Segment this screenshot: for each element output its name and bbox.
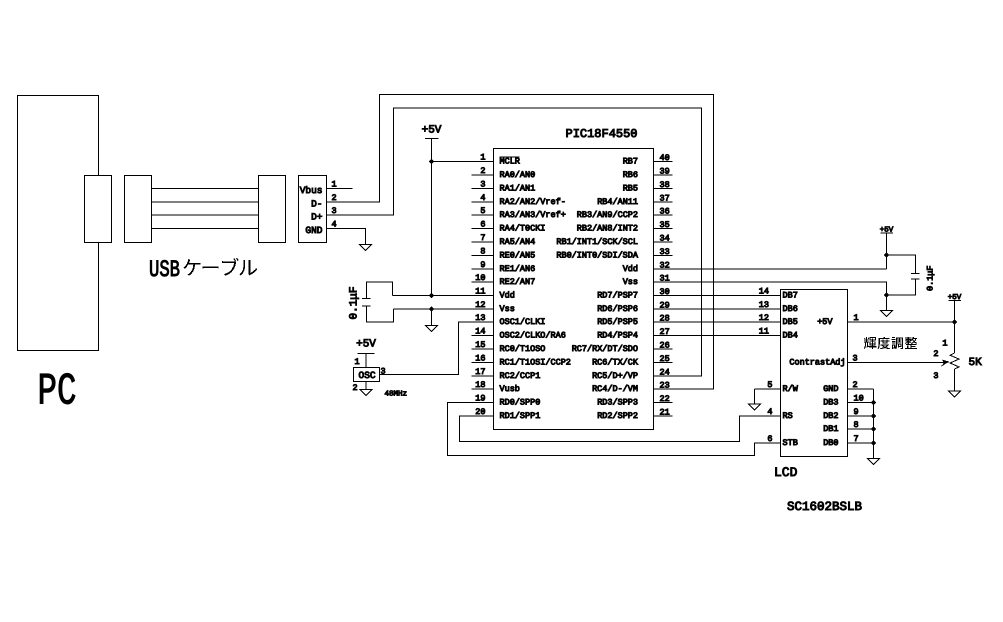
U1 pin 11 stub bbox=[472, 295, 494, 297]
svg-text:9: 9 bbox=[480, 260, 485, 270]
U1 pin 31 number bbox=[660, 274, 670, 284]
U1 pin 40 number bbox=[660, 153, 670, 163]
U1 pin 16 stub bbox=[472, 362, 494, 364]
U1 pin 3 number bbox=[480, 180, 485, 190]
U1 pin 22 stub bbox=[654, 402, 673, 404]
U1 pin 25 stub bbox=[654, 362, 673, 364]
svg-text:RB2/AN8/INT2: RB2/AN8/INT2 bbox=[577, 224, 638, 234]
capacitor C2 0.1uF bbox=[887, 255, 920, 295]
U1 pin 13 stub bbox=[472, 321, 494, 323]
U1 pin 23 stub bbox=[654, 388, 673, 390]
wire Vdd pin 32 bbox=[654, 268, 887, 270]
U1 pin 38 label RB5 bbox=[623, 184, 638, 194]
U1 pin 4 number bbox=[480, 193, 485, 203]
svg-text:RA5/AN4: RA5/AN4 bbox=[500, 237, 536, 247]
U1 pin 19 label RD0/SPP0 bbox=[500, 398, 541, 408]
svg-text:SC1602BSLB: SC1602BSLB bbox=[787, 500, 863, 514]
node DB0 junction bbox=[871, 440, 876, 445]
U1 pin 34 number bbox=[660, 234, 670, 244]
svg-text:DB1: DB1 bbox=[823, 424, 838, 434]
node pot top junction bbox=[952, 319, 957, 324]
svg-text:RA1/AN1: RA1/AN1 bbox=[500, 184, 536, 194]
wire RD4 to DB4 bbox=[654, 335, 781, 337]
OSC pin 2 label bbox=[353, 383, 358, 393]
ground at OSC bbox=[360, 390, 372, 396]
U1 pin 32 number bbox=[660, 261, 670, 271]
ground at J1 bbox=[360, 245, 372, 251]
svg-text:RD4/PSP4: RD4/PSP4 bbox=[597, 331, 638, 341]
svg-text:12: 12 bbox=[759, 313, 769, 323]
U1 pin 13 label OSC1/CLKI bbox=[500, 317, 546, 327]
U1 pin 14 label OSC2/CLKO/RA6 bbox=[500, 331, 566, 341]
U1 pin 35 label RB2/AN8/INT2 bbox=[577, 224, 638, 234]
svg-text:1: 1 bbox=[355, 357, 360, 367]
U1 pin 13 number bbox=[475, 313, 485, 323]
svg-text:+5V: +5V bbox=[422, 125, 442, 137]
svg-text:11: 11 bbox=[759, 327, 769, 337]
svg-text:15: 15 bbox=[475, 340, 485, 350]
U1 pin 37 stub bbox=[654, 201, 673, 203]
svg-text:RA2/AN2/Vref-: RA2/AN2/Vref- bbox=[500, 197, 566, 207]
wire Vss pin 31 bbox=[654, 282, 887, 295]
U1 pin 26 label RC7/RX/DT/SDO bbox=[572, 344, 638, 354]
svg-text:DB4: DB4 bbox=[783, 331, 798, 341]
LCD pin 7 number bbox=[854, 434, 859, 444]
svg-text:+5V: +5V bbox=[817, 317, 833, 327]
svg-text:D-: D- bbox=[311, 199, 322, 210]
wire ContrastAdj to pot wiper bbox=[848, 360, 950, 367]
power +5V V3 bbox=[880, 227, 894, 235]
U1 pin 18 stub bbox=[472, 388, 494, 390]
svg-text:+5V: +5V bbox=[356, 339, 376, 351]
svg-text:34: 34 bbox=[660, 234, 670, 244]
U1 pin 19 stub bbox=[472, 402, 494, 404]
svg-text:26: 26 bbox=[660, 341, 670, 351]
U1 pin 28 number bbox=[660, 314, 670, 324]
U1 pin 24 number bbox=[660, 368, 670, 378]
U1 pin 15 label RC0/T1OSO bbox=[500, 344, 546, 354]
U1 pin 5 stub bbox=[472, 214, 494, 216]
USB cable wire 2 bbox=[152, 201, 259, 203]
U1 pin 1 label MCLR bbox=[500, 157, 520, 167]
svg-text:40: 40 bbox=[660, 153, 670, 163]
svg-text:RD6/PSP6: RD6/PSP6 bbox=[597, 304, 638, 314]
svg-text:11: 11 bbox=[475, 287, 485, 297]
svg-text:RD1/SPP1: RD1/SPP1 bbox=[500, 411, 541, 421]
LCD pin 10 number bbox=[854, 394, 864, 404]
wire J1 GND bbox=[327, 229, 366, 245]
U1 pin 38 stub bbox=[654, 188, 673, 190]
U1 pin 2 label RA0/AN0 bbox=[500, 170, 536, 180]
svg-text:RC1/T1OSI/CCP2: RC1/T1OSI/CCP2 bbox=[500, 358, 571, 368]
U1 pin 36 stub bbox=[654, 214, 673, 216]
svg-text:10: 10 bbox=[475, 273, 485, 283]
USB cable wire 3 bbox=[152, 214, 259, 216]
U1 name label bbox=[566, 127, 638, 141]
wire D- to RC4 bbox=[327, 95, 714, 390]
U1 pin 10 label RE2/AN7 bbox=[500, 277, 536, 287]
wire DB0 stub bbox=[848, 442, 874, 444]
U1 pin 5 label RA3/AN3/Vref+ bbox=[500, 210, 566, 220]
LCD pin 9 number bbox=[854, 407, 859, 417]
svg-text:Vdd: Vdd bbox=[500, 291, 515, 301]
U1 pin 12 label Vss bbox=[500, 304, 515, 314]
power +5V V1 bbox=[422, 125, 442, 139]
svg-text:PIC18F4550: PIC18F4550 bbox=[566, 127, 638, 141]
U1 pin 31 stub bbox=[654, 281, 673, 283]
J1 pin 1 label bbox=[332, 180, 337, 190]
LCD DB3 label bbox=[823, 398, 838, 408]
svg-text:RA3/AN3/Vref+: RA3/AN3/Vref+ bbox=[500, 210, 566, 220]
svg-text:RD0/SPP0: RD0/SPP0 bbox=[500, 398, 541, 408]
J1 pin 4 label bbox=[332, 220, 337, 230]
PC USB port bbox=[85, 176, 112, 243]
svg-text:D+: D+ bbox=[311, 212, 323, 223]
U1 pin 39 label RB6 bbox=[623, 170, 638, 180]
U1 pin 4 stub bbox=[472, 201, 494, 203]
svg-text:ContrastAdj: ContrastAdj bbox=[789, 358, 845, 368]
U1 pin 6 label RA4/T0CKI bbox=[500, 224, 546, 234]
svg-text:24: 24 bbox=[660, 368, 670, 378]
U1 pin 35 number bbox=[660, 220, 670, 230]
PC box bbox=[18, 96, 99, 351]
U1 pin 17 number bbox=[475, 367, 485, 377]
svg-text:Vusb: Vusb bbox=[500, 384, 520, 394]
U1 pin 28 label RD5/PSP5 bbox=[597, 317, 638, 327]
U1 pin 17 stub bbox=[472, 375, 494, 377]
LCD ContrastAdj label bbox=[789, 358, 845, 368]
U1 pin 15 stub bbox=[472, 348, 494, 350]
svg-text:RD5/PSP5: RD5/PSP5 bbox=[597, 317, 638, 327]
LCD GND label bbox=[823, 384, 838, 394]
svg-text:35: 35 bbox=[660, 220, 670, 230]
svg-text:OSC1/CLKI: OSC1/CLKI bbox=[500, 317, 546, 327]
U1 pin 7 number bbox=[480, 233, 485, 243]
U1 pin 24 stub bbox=[654, 375, 673, 377]
svg-text:6: 6 bbox=[767, 434, 772, 444]
U1 pin 29 label RD6/PSP6 bbox=[597, 304, 638, 314]
potentiometer VR1 bbox=[950, 353, 959, 369]
svg-text:14: 14 bbox=[759, 287, 769, 297]
U1 pin 8 number bbox=[480, 247, 485, 257]
capacitor C1 0.1uF bbox=[362, 282, 394, 322]
U1 pin 34 label RB1/INT1/SCK/SCL bbox=[556, 237, 638, 247]
svg-text:RB1/INT1/SCK/SCL: RB1/INT1/SCK/SCL bbox=[556, 237, 638, 247]
svg-text:18: 18 bbox=[475, 380, 485, 390]
svg-text:RC7/RX/DT/SDO: RC7/RX/DT/SDO bbox=[572, 344, 638, 354]
svg-text:1: 1 bbox=[942, 339, 947, 349]
U1 pin 3 label RA1/AN1 bbox=[500, 184, 536, 194]
U1 pin 20 label RD1/SPP1 bbox=[500, 411, 541, 421]
U1 pin 37 label RB4/AN11 bbox=[597, 197, 638, 207]
svg-text:RB5: RB5 bbox=[623, 184, 638, 194]
U1 pin 36 number bbox=[660, 207, 670, 217]
LCD name label bbox=[774, 465, 798, 480]
wire R/W to ground bbox=[755, 389, 781, 404]
LCD pin 5 number bbox=[767, 380, 772, 390]
U1 pin 23 number bbox=[660, 381, 670, 391]
svg-text:17: 17 bbox=[475, 367, 485, 377]
svg-text:7: 7 bbox=[480, 233, 485, 243]
U1 pin 34 stub bbox=[654, 241, 673, 243]
U1 pin 21 label RD2/SPP2 bbox=[597, 411, 638, 421]
wire +5V V4 down bbox=[954, 301, 956, 323]
wire D+ to RC5 bbox=[327, 108, 702, 376]
U1 pin 22 number bbox=[660, 394, 670, 404]
LCD +5V label bbox=[817, 317, 833, 327]
OSC pin 3 label bbox=[381, 367, 386, 377]
U1 pin 37 number bbox=[660, 194, 670, 204]
svg-text:RE2/AN7: RE2/AN7 bbox=[500, 277, 536, 287]
U1 pin 17 label RC2/CCP1 bbox=[500, 371, 541, 381]
svg-text:33: 33 bbox=[660, 247, 670, 257]
svg-text:GND: GND bbox=[823, 384, 838, 394]
U1 pin 3 stub bbox=[472, 188, 494, 190]
U1 pin 9 label RE1/AN6 bbox=[500, 264, 536, 274]
LCD DB1 label bbox=[823, 424, 838, 434]
svg-text:DB6: DB6 bbox=[783, 304, 798, 314]
J1 pin 2 label bbox=[332, 193, 337, 203]
svg-text:2: 2 bbox=[353, 383, 358, 393]
LCD DB2 label bbox=[823, 411, 838, 421]
pot pin 1 label bbox=[942, 339, 947, 349]
U1 pin 33 stub bbox=[654, 255, 673, 257]
svg-text:Vss: Vss bbox=[500, 304, 515, 314]
svg-text:RE0/AN5: RE0/AN5 bbox=[500, 251, 536, 261]
LCD pin 3 number bbox=[853, 354, 858, 364]
PC label bbox=[38, 367, 77, 418]
node DB1 junction bbox=[871, 426, 876, 431]
svg-text:5: 5 bbox=[480, 206, 485, 216]
svg-text:2: 2 bbox=[480, 166, 485, 176]
svg-text:RD2/SPP2: RD2/SPP2 bbox=[597, 411, 638, 421]
LCD type SC1602BSLB bbox=[787, 500, 863, 514]
svg-text:16: 16 bbox=[475, 354, 485, 364]
U1 pin 22 label RD3/SPP3 bbox=[597, 398, 638, 408]
pot pin 2 label bbox=[933, 349, 938, 359]
U1 pin 5 number bbox=[480, 206, 485, 216]
svg-text:R/W: R/W bbox=[783, 384, 799, 394]
svg-text:DB5: DB5 bbox=[783, 317, 798, 327]
wire DB1 stub bbox=[848, 428, 874, 430]
pot pin 3 label bbox=[933, 371, 938, 381]
svg-text:14: 14 bbox=[475, 327, 485, 337]
svg-text:36: 36 bbox=[660, 207, 670, 217]
svg-text:5K: 5K bbox=[969, 357, 983, 369]
svg-text:13: 13 bbox=[759, 300, 769, 310]
svg-text:RC0/T1OSO: RC0/T1OSO bbox=[500, 344, 546, 354]
svg-text:2: 2 bbox=[933, 349, 938, 359]
J1 pin 3 label bbox=[332, 206, 337, 216]
U1 pin 11 number bbox=[475, 287, 485, 297]
wire RD0 to LCD STB bbox=[448, 403, 781, 456]
U1 pin 16 label RC1/T1OSI/CCP2 bbox=[500, 358, 571, 368]
wire RD7 to DB7 bbox=[654, 295, 781, 297]
C1 value label bbox=[349, 286, 361, 319]
U1 pin 4 label RA2/AN2/Vref- bbox=[500, 197, 566, 207]
svg-text:USB: USB bbox=[149, 257, 180, 284]
U1 pin 40 label RB7 bbox=[623, 157, 638, 167]
svg-text:12: 12 bbox=[475, 300, 485, 310]
svg-text:STB: STB bbox=[783, 438, 798, 448]
U1 pin 10 stub bbox=[472, 281, 494, 283]
svg-text:23: 23 bbox=[660, 381, 670, 391]
svg-text:RB7: RB7 bbox=[623, 157, 638, 167]
svg-text:RD7/PSP7: RD7/PSP7 bbox=[597, 291, 638, 301]
wire C1 to Vss pin 12 bbox=[394, 308, 494, 310]
U1 pin 16 number bbox=[475, 354, 485, 364]
svg-text:OSC: OSC bbox=[359, 370, 376, 381]
wire RD5 to DB5 bbox=[654, 321, 781, 323]
U1 pin 33 label RB0/INT0/SDI/SDA bbox=[556, 251, 639, 261]
svg-text:RB3/AN9/CCP2: RB3/AN9/CCP2 bbox=[577, 210, 638, 220]
U1 pin 24 label RC5/D+/VP bbox=[592, 371, 638, 381]
wire Vbus stub bbox=[327, 188, 353, 190]
U1 pin 35 stub bbox=[654, 228, 673, 230]
wire DB3 stub bbox=[848, 402, 874, 404]
node Vss junction bbox=[429, 306, 434, 311]
svg-text:RA0/AN0: RA0/AN0 bbox=[500, 170, 536, 180]
wire pot top bbox=[954, 322, 956, 353]
U1 pin 25 label RC6/TX/CK bbox=[592, 358, 639, 368]
U1 pin 6 number bbox=[480, 220, 485, 230]
U1 pin 23 label RC4/D-/VM bbox=[592, 384, 638, 394]
wire +5V V3 down bbox=[886, 233, 888, 269]
U1 pin 12 number bbox=[475, 300, 485, 310]
LCD DB0 label bbox=[823, 438, 838, 448]
LCD pin 4 number bbox=[767, 407, 772, 417]
U1 pin 1 stub bbox=[472, 161, 494, 163]
svg-text:DB3: DB3 bbox=[823, 398, 838, 408]
LCD RS label bbox=[783, 411, 793, 421]
svg-text:RC4/D-/VM: RC4/D-/VM bbox=[592, 384, 638, 394]
IC U1 PIC18F4550 body bbox=[494, 149, 654, 430]
U1 pin 27 number bbox=[660, 327, 670, 337]
wire C1 to Vdd pin 11 bbox=[393, 295, 494, 297]
U1 pin 19 number bbox=[475, 394, 485, 404]
wire RD6 to DB6 bbox=[654, 308, 781, 310]
node C2 top junction bbox=[884, 252, 889, 257]
svg-text:37: 37 bbox=[660, 194, 670, 204]
wire LCD GND bus bbox=[848, 389, 874, 459]
ground at C2 bbox=[881, 311, 893, 317]
wire +5V down to Vdd bbox=[431, 139, 433, 296]
U1 pin 9 number bbox=[480, 260, 485, 270]
U1 pin 12 stub bbox=[472, 308, 494, 310]
svg-text:RS: RS bbox=[783, 411, 793, 421]
LCD STB label bbox=[783, 438, 798, 448]
LCD pin 11 number bbox=[759, 327, 769, 337]
U1 pin 21 stub bbox=[654, 415, 673, 417]
U1 pin 18 label Vusb bbox=[500, 384, 520, 394]
ground at pot bbox=[949, 391, 961, 397]
U1 pin 8 label RE0/AN5 bbox=[500, 251, 536, 261]
U1 pin 21 number bbox=[660, 408, 670, 418]
wire pot bottom bbox=[954, 369, 956, 391]
U1 pin 27 stub bbox=[654, 335, 673, 337]
svg-text:22: 22 bbox=[660, 394, 670, 404]
svg-text:39: 39 bbox=[660, 167, 670, 177]
USB cable right plug bbox=[259, 176, 286, 243]
LCD DB4 label bbox=[783, 331, 798, 341]
node C2 bottom junction bbox=[884, 292, 889, 297]
U1 pin 6 stub bbox=[472, 228, 494, 230]
USB connector J1 bbox=[299, 176, 327, 243]
ground at LCD GND bus bbox=[868, 459, 880, 465]
svg-text:RC2/CCP1: RC2/CCP1 bbox=[500, 371, 541, 381]
svg-text:DB2: DB2 bbox=[823, 411, 838, 421]
ground at R/W bbox=[749, 404, 761, 410]
svg-text:48MHz: 48MHz bbox=[385, 390, 408, 399]
U1 pin 39 number bbox=[660, 167, 670, 177]
svg-text:RD3/SPP3: RD3/SPP3 bbox=[597, 398, 638, 408]
U1 pin 11 label Vdd bbox=[500, 291, 515, 301]
svg-text:25: 25 bbox=[660, 354, 670, 364]
U1 pin 29 stub bbox=[654, 308, 673, 310]
svg-text:8: 8 bbox=[480, 247, 485, 257]
svg-text:0.1μF: 0.1μF bbox=[349, 286, 361, 319]
U1 pin 38 number bbox=[660, 180, 670, 190]
U1 pin 15 number bbox=[475, 340, 485, 350]
U1 pin 26 stub bbox=[654, 348, 673, 350]
svg-text:PC: PC bbox=[38, 367, 77, 418]
U1 pin 33 number bbox=[660, 247, 670, 257]
U1 pin 20 number bbox=[475, 407, 485, 417]
U1 pin 7 stub bbox=[472, 241, 494, 243]
VR1 value 5K bbox=[969, 357, 983, 369]
LCD module body bbox=[781, 290, 848, 457]
LCD pin 2 number bbox=[853, 380, 858, 390]
wire Vss to ground bbox=[431, 309, 433, 326]
svg-text:38: 38 bbox=[660, 180, 670, 190]
svg-text:RC6/TX/CK: RC6/TX/CK bbox=[592, 358, 639, 368]
svg-text:4: 4 bbox=[480, 193, 485, 203]
U1 pin 30 number bbox=[660, 287, 670, 297]
U1 pin 32 stub bbox=[654, 268, 673, 270]
LCD DB7 label bbox=[783, 291, 798, 301]
C2 value label bbox=[926, 265, 936, 291]
U1 pin 2 number bbox=[480, 166, 485, 176]
brightness adjust label bbox=[864, 337, 917, 349]
svg-text:Vbus: Vbus bbox=[300, 185, 323, 196]
oscillator X1 bbox=[354, 368, 380, 382]
svg-text:1: 1 bbox=[480, 153, 485, 163]
wire OSC out to OSC1 pin 13 bbox=[380, 322, 494, 375]
svg-text:3: 3 bbox=[480, 180, 485, 190]
node DB3 junction bbox=[871, 400, 876, 405]
U1 pin 29 number bbox=[660, 301, 670, 311]
svg-text:3: 3 bbox=[933, 371, 938, 381]
svg-text:RB4/AN11: RB4/AN11 bbox=[597, 197, 638, 207]
U1 pin 39 stub bbox=[654, 174, 673, 176]
svg-text:GND: GND bbox=[305, 225, 322, 236]
node MCLR junction bbox=[429, 159, 434, 164]
U1 pin 1 number bbox=[480, 153, 485, 163]
svg-text:6: 6 bbox=[480, 220, 485, 230]
U1 pin 27 label RD4/PSP4 bbox=[597, 331, 638, 341]
U1 pin 20 stub bbox=[472, 415, 494, 417]
U1 pin 30 stub bbox=[654, 295, 673, 297]
U1 pin 7 label RA5/AN4 bbox=[500, 237, 536, 247]
LCD pin 1 number bbox=[854, 313, 859, 323]
U1 pin 2 stub bbox=[472, 174, 494, 176]
power +5V V4 bbox=[948, 294, 962, 302]
svg-text:0.1μF: 0.1μF bbox=[926, 265, 936, 291]
svg-text:LCD: LCD bbox=[774, 465, 798, 480]
USB cable wire 1 bbox=[152, 188, 259, 190]
svg-text:OSC2/CLKO/RA6: OSC2/CLKO/RA6 bbox=[500, 331, 566, 341]
U1 pin 25 number bbox=[660, 354, 670, 364]
